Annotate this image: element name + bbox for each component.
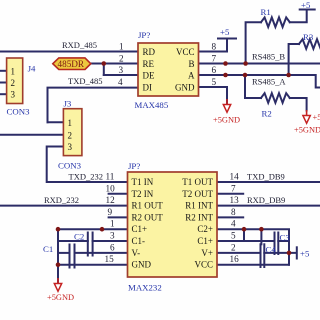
svg-text:1: 1 <box>119 42 124 52</box>
svg-text:J4: J4 <box>28 64 36 74</box>
svg-text:JP?: JP? <box>138 30 150 40</box>
svg-text:TXD_485: TXD_485 <box>68 76 102 86</box>
svg-text:C2: C2 <box>74 232 84 242</box>
wire MAX232 pin3 to C2 <box>58 240 88 242</box>
svg-text:R2 OUT: R2 OUT <box>132 212 164 222</box>
svg-text:3: 3 <box>11 90 16 100</box>
svg-text:+5GND: +5GND <box>213 116 240 125</box>
svg-text:7: 7 <box>212 54 217 64</box>
svg-text:R1: R1 <box>261 7 271 17</box>
svg-text:RD: RD <box>143 47 156 57</box>
wire MAX232 T2OUT stub <box>217 193 243 195</box>
wire J3 pin2 net <box>0 134 63 136</box>
svg-text:GND: GND <box>132 260 152 270</box>
svg-text:JP?: JP? <box>128 161 140 171</box>
junction dots MAX232 nets <box>56 227 292 267</box>
svg-text:4: 4 <box>231 219 236 229</box>
svg-text:7: 7 <box>231 183 236 193</box>
svg-text:C4: C4 <box>266 245 277 255</box>
svg-text:GND: GND <box>175 82 195 92</box>
wire MAX232 pin16 VCC <box>217 264 289 266</box>
svg-text:T1 OUT: T1 OUT <box>182 177 213 187</box>
svg-text:RS485_A: RS485_A <box>252 77 286 87</box>
wire MAX232 pin5 to C3 <box>217 240 275 242</box>
svg-text:+5GND: +5GND <box>47 293 74 302</box>
wire DE <box>104 74 138 76</box>
junction dots MAX485 nets <box>102 61 291 77</box>
svg-text:T2 OUT: T2 OUT <box>182 189 213 199</box>
svg-text:C2+: C2+ <box>197 224 213 234</box>
wire TXD_DB9 net <box>217 181 320 183</box>
op-amp U1: MAX485 chip body <box>138 43 199 96</box>
svg-text:13: 13 <box>230 195 240 205</box>
connector J3 <box>63 109 82 156</box>
svg-text:CON3: CON3 <box>7 107 31 117</box>
ground symbol +5GND (MAX232) <box>57 278 59 284</box>
svg-text:2: 2 <box>231 242 236 252</box>
wire MAX232 R2OUT stub <box>109 216 128 218</box>
svg-text:RXD_DB9: RXD_DB9 <box>247 195 285 205</box>
svg-text:2: 2 <box>11 78 16 88</box>
svg-text:TXD_232: TXD_232 <box>69 172 103 182</box>
svg-text:VCC: VCC <box>194 260 213 270</box>
capacitor C3 plates <box>274 233 276 255</box>
svg-text:J3: J3 <box>64 99 72 109</box>
svg-text:C1-: C1- <box>132 236 146 246</box>
resistor R2 <box>245 75 261 98</box>
svg-text:T2 IN: T2 IN <box>132 189 154 199</box>
svg-text:+5: +5 <box>300 249 310 259</box>
svg-text:4: 4 <box>118 77 123 87</box>
svg-text:10: 10 <box>106 183 116 193</box>
wire MAX485 GND down <box>199 87 228 104</box>
svg-text:TXD_DB9: TXD_DB9 <box>247 172 285 182</box>
net tag 485DR <box>53 58 91 70</box>
svg-text:DE: DE <box>143 70 155 80</box>
svg-text:+5: +5 <box>313 113 320 122</box>
svg-text:8: 8 <box>212 42 217 52</box>
svg-text:6: 6 <box>212 65 217 75</box>
svg-text:1: 1 <box>68 118 73 128</box>
svg-text:R1 OUT: R1 OUT <box>132 201 164 211</box>
svg-text:8: 8 <box>231 207 236 217</box>
svg-text:485DR: 485DR <box>58 59 85 69</box>
svg-text:CON3: CON3 <box>58 161 82 171</box>
wire J4 pin stubs <box>0 70 7 72</box>
svg-text:2: 2 <box>119 54 124 64</box>
power +5 bar (R1) <box>300 9 315 11</box>
wire MAX232 pin15 GND <box>58 264 128 266</box>
svg-text:RXD_485: RXD_485 <box>62 40 97 50</box>
svg-text:2: 2 <box>68 130 73 140</box>
svg-text:15: 15 <box>105 254 115 264</box>
svg-text:3: 3 <box>110 231 115 241</box>
svg-text:14: 14 <box>230 172 240 182</box>
wire left cap bus to +5GND <box>57 229 59 283</box>
wire MAX232 pin1 C1+ <box>58 228 128 230</box>
wire MAX232 pin2 V+ to C4 and +5 <box>217 252 261 254</box>
wire pin4 short taps <box>243 229 245 241</box>
svg-text:9: 9 <box>108 207 113 217</box>
svg-text:3: 3 <box>68 142 73 152</box>
capacitor C2 plates <box>87 233 89 256</box>
wire RS485_A net <box>199 75 320 88</box>
connector J4 <box>7 58 23 104</box>
svg-text:C3: C3 <box>280 233 291 243</box>
wire RXD_232 net <box>0 205 128 207</box>
wire RXD_485 net <box>0 51 138 53</box>
wire MAX485 VCC to +5 <box>199 39 228 52</box>
resistor R3 <box>289 44 299 75</box>
svg-text:C1+: C1+ <box>197 236 213 246</box>
svg-text:V-: V- <box>132 248 141 258</box>
svg-text:T1 IN: T1 IN <box>132 177 154 187</box>
svg-text:1: 1 <box>11 66 16 76</box>
svg-text:3: 3 <box>119 65 124 75</box>
svg-text:+5: +5 <box>220 27 230 37</box>
svg-text:12: 12 <box>106 195 116 205</box>
capacitor C1 plates <box>69 245 71 268</box>
wire J3 pin1 stub <box>48 121 64 123</box>
power +5 bar (MAX485 VCC) <box>218 38 236 40</box>
wire MAX232 pin4 C2+ <box>217 229 289 265</box>
svg-text:RE: RE <box>143 59 155 69</box>
wire RXD_DB9 net <box>217 205 320 207</box>
capacitor C4 plates <box>260 244 262 267</box>
wire RS485_B net <box>199 63 320 65</box>
wire TXD_485 net <box>48 88 139 123</box>
wire MAX232 R2INT stub <box>217 216 243 218</box>
svg-text:C1+: C1+ <box>132 224 148 234</box>
svg-text:V+: V+ <box>201 248 213 258</box>
svg-text:R3: R3 <box>303 32 314 42</box>
svg-text:5: 5 <box>231 231 236 241</box>
ground symbol +5GND (MAX485) <box>226 99 228 105</box>
svg-text:11: 11 <box>106 172 115 182</box>
svg-text:+5: +5 <box>301 0 311 10</box>
ground symbol +5GND (R2) <box>306 110 308 116</box>
transistor U2: MAX232 chip body <box>128 172 218 277</box>
svg-text:R1 INT: R1 INT <box>185 201 213 211</box>
resistor R1 <box>246 22 261 63</box>
svg-text:MAX485: MAX485 <box>135 100 169 110</box>
power +5 bar (MAX232 V+) <box>296 247 298 258</box>
wire MAX232 T2IN stub <box>109 193 128 195</box>
svg-text:B: B <box>188 59 194 69</box>
svg-text:6: 6 <box>110 242 115 252</box>
wire J3 pin3 to TXD_232 <box>47 147 128 183</box>
wire vertical RE-DE junction <box>103 64 105 76</box>
svg-text:+5GND: +5GND <box>294 126 320 135</box>
svg-text:MAX232: MAX232 <box>128 283 162 293</box>
svg-text:VCC: VCC <box>176 47 195 57</box>
svg-text:1: 1 <box>110 219 115 229</box>
svg-text:C1: C1 <box>43 244 53 254</box>
svg-text:R2 INT: R2 INT <box>185 212 213 222</box>
svg-text:5: 5 <box>212 77 217 87</box>
wire MAX232 pin6 to C1 <box>58 252 70 254</box>
svg-text:RS485_B: RS485_B <box>252 52 285 62</box>
svg-text:A: A <box>188 70 195 80</box>
svg-text:DI: DI <box>143 82 153 92</box>
wire RE from 485DR tag <box>91 63 139 65</box>
svg-text:R2: R2 <box>262 109 272 119</box>
svg-text:RXD_232: RXD_232 <box>44 195 79 205</box>
svg-text:16: 16 <box>230 254 240 264</box>
